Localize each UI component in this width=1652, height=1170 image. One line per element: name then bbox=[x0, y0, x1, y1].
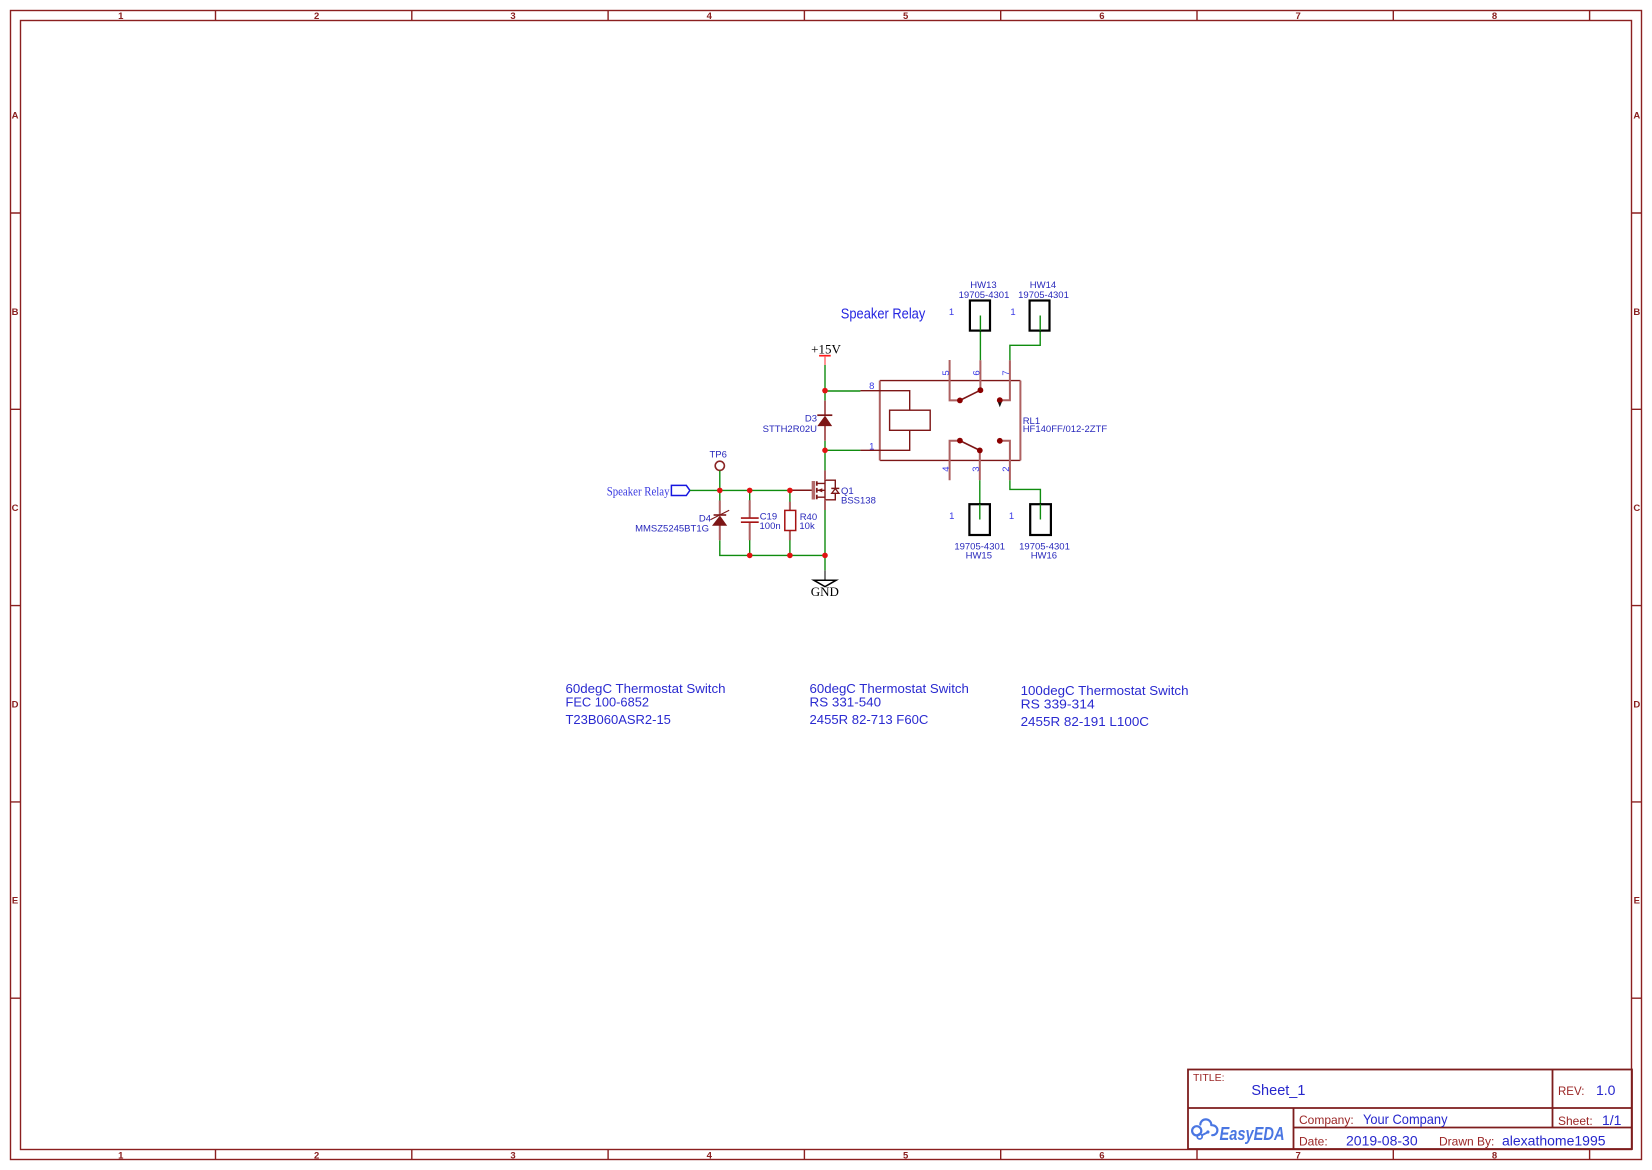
wire node to relay pin8 bbox=[825, 390, 860, 392]
diode D3 STTH2R02U bbox=[763, 390, 833, 450]
svg-text:19705-4301: 19705-4301 bbox=[1018, 290, 1069, 301]
wire source to gnd rail bbox=[824, 510, 826, 570]
svg-text:C: C bbox=[12, 503, 19, 514]
svg-text:1: 1 bbox=[949, 307, 954, 318]
svg-text:HF140FF/012-2ZTF: HF140FF/012-2ZTF bbox=[1023, 424, 1108, 435]
svg-text:BSS138: BSS138 bbox=[841, 495, 876, 506]
svg-text:4: 4 bbox=[707, 11, 713, 22]
svg-text:6: 6 bbox=[1099, 11, 1104, 22]
svg-text:HW16: HW16 bbox=[1031, 551, 1057, 562]
relay pin 6 bbox=[979, 360, 981, 390]
svg-text:60degC Thermostat Switch: 60degC Thermostat Switch bbox=[810, 682, 969, 696]
svg-text:FEC 100-6852: FEC 100-6852 bbox=[566, 696, 650, 710]
relay contact arrow bbox=[998, 402, 1002, 407]
svg-text:Sheet:: Sheet: bbox=[1558, 1114, 1593, 1128]
svg-text:1/1: 1/1 bbox=[1602, 1112, 1622, 1128]
svg-text:Speaker Relay: Speaker Relay bbox=[607, 485, 670, 499]
resistor R40 10k bbox=[785, 490, 817, 555]
svg-text:7: 7 bbox=[1001, 370, 1012, 375]
svg-text:RS 339-314: RS 339-314 bbox=[1021, 698, 1095, 712]
svg-text:4: 4 bbox=[707, 1150, 713, 1161]
svg-text:MMSZ5245BT1G: MMSZ5245BT1G bbox=[635, 524, 709, 535]
svg-text:2455R 82-713 F60C: 2455R 82-713 F60C bbox=[810, 713, 929, 727]
svg-text:2: 2 bbox=[314, 1150, 319, 1161]
test point TP6 bbox=[710, 449, 727, 470]
svg-text:60degC Thermostat Switch: 60degC Thermostat Switch bbox=[566, 682, 726, 696]
svg-text:A: A bbox=[12, 111, 19, 122]
ground flag GND bbox=[811, 570, 839, 599]
svg-text:RS 331-540: RS 331-540 bbox=[810, 696, 882, 710]
svg-text:A: A bbox=[1633, 111, 1640, 122]
note 100degC thermostat RS bbox=[1021, 684, 1189, 729]
note 60degC thermostat RS bbox=[810, 682, 969, 727]
svg-text:2455R 82-191 L100C: 2455R 82-191 L100C bbox=[1021, 715, 1149, 729]
junction node rail/source bbox=[822, 553, 828, 559]
relay pin 5 bbox=[950, 360, 960, 400]
svg-text:2019-08-30: 2019-08-30 bbox=[1346, 1133, 1418, 1149]
junction node rail/C19 bbox=[747, 553, 753, 559]
svg-text:7: 7 bbox=[1296, 1150, 1301, 1161]
svg-text:6: 6 bbox=[1099, 1150, 1104, 1161]
svg-text:7: 7 bbox=[1296, 11, 1301, 22]
svg-text:TP6: TP6 bbox=[710, 449, 727, 460]
svg-text:Drawn By:: Drawn By: bbox=[1439, 1135, 1494, 1149]
connector HW15 19705-4301 bbox=[949, 504, 1005, 561]
wire +15V down to node bbox=[824, 365, 826, 390]
relay pin 7 bbox=[1000, 360, 1010, 400]
svg-text:1: 1 bbox=[869, 441, 874, 452]
junction node gate/TP6 bbox=[717, 488, 723, 494]
wire bottom rail bbox=[720, 540, 825, 555]
svg-text:C: C bbox=[1633, 503, 1640, 514]
svg-text:3: 3 bbox=[510, 11, 515, 22]
svg-text:E: E bbox=[1634, 896, 1640, 907]
svg-text:2: 2 bbox=[314, 11, 319, 22]
connector HW16 19705-4301 bbox=[1009, 504, 1070, 561]
svg-text:E: E bbox=[12, 896, 18, 907]
svg-text:B: B bbox=[12, 307, 19, 318]
relay pin 4 bbox=[950, 441, 960, 480]
net flag Speaker Relay bbox=[607, 485, 690, 499]
junction node rail/R40 bbox=[787, 553, 793, 559]
svg-text:1.0: 1.0 bbox=[1596, 1082, 1616, 1098]
relay pin 3 bbox=[979, 450, 981, 480]
relay RL1 HF140FF/012-2ZTF bbox=[860, 360, 1107, 480]
power flag +15V bbox=[811, 342, 841, 365]
wire relay pin6 to HW13 bbox=[979, 316, 981, 361]
svg-text:8: 8 bbox=[1492, 11, 1497, 22]
relay pin 2 bbox=[1000, 441, 1010, 480]
svg-text:8: 8 bbox=[1492, 1150, 1497, 1161]
svg-text:Company:: Company: bbox=[1299, 1113, 1354, 1127]
svg-text:5: 5 bbox=[903, 11, 909, 22]
svg-text:EasyEDA: EasyEDA bbox=[1220, 1124, 1285, 1144]
svg-text:2: 2 bbox=[1001, 466, 1012, 471]
relay upper armature bbox=[960, 390, 981, 400]
svg-text:GND: GND bbox=[811, 584, 839, 599]
wire node to relay pin1 bbox=[825, 449, 860, 451]
wire TP6 to node bbox=[719, 471, 721, 501]
svg-text:D: D bbox=[1633, 699, 1640, 710]
svg-text:1: 1 bbox=[949, 511, 954, 522]
junction node drain/pin1 bbox=[822, 448, 828, 454]
connector HW14 19705-4301 bbox=[1010, 280, 1069, 330]
zener diode D4 MMSZ5245BT1G bbox=[635, 501, 729, 541]
svg-text:4: 4 bbox=[941, 466, 952, 471]
svg-text:D3: D3 bbox=[805, 414, 817, 425]
svg-text:1: 1 bbox=[1009, 511, 1014, 522]
svg-text:3: 3 bbox=[510, 1150, 515, 1161]
wire drain node vertical bbox=[824, 450, 826, 470]
svg-text:100n: 100n bbox=[760, 521, 781, 532]
svg-text:Sheet_1: Sheet_1 bbox=[1251, 1083, 1305, 1099]
svg-text:B: B bbox=[1633, 307, 1640, 318]
svg-text:1: 1 bbox=[118, 1150, 124, 1161]
svg-text:REV:: REV: bbox=[1558, 1086, 1584, 1098]
note 60degC thermostat FEC bbox=[566, 682, 726, 727]
svg-text:+15V: +15V bbox=[811, 342, 841, 357]
svg-text:alexathome1995: alexathome1995 bbox=[1502, 1133, 1606, 1149]
svg-text:8: 8 bbox=[869, 381, 874, 392]
svg-text:HW15: HW15 bbox=[966, 551, 992, 562]
mosfet Q1 BSS138 bbox=[791, 470, 876, 510]
wire relay pin7 to HW14 bbox=[1010, 316, 1040, 361]
svg-text:3: 3 bbox=[971, 466, 982, 471]
junction node +15V/pin8 bbox=[822, 388, 828, 394]
svg-text:Your Company: Your Company bbox=[1363, 1111, 1448, 1127]
svg-text:19705-4301: 19705-4301 bbox=[959, 290, 1010, 301]
svg-text:5: 5 bbox=[903, 1150, 909, 1161]
wire relay pin3 to HW15 bbox=[979, 480, 981, 519]
svg-text:D: D bbox=[12, 699, 19, 710]
svg-text:1: 1 bbox=[1010, 307, 1015, 318]
svg-text:10k: 10k bbox=[799, 521, 815, 532]
svg-text:STTH2R02U: STTH2R02U bbox=[763, 424, 818, 435]
svg-text:1: 1 bbox=[118, 11, 124, 22]
svg-text:TITLE:: TITLE: bbox=[1193, 1072, 1225, 1084]
svg-text:Speaker Relay: Speaker Relay bbox=[841, 306, 926, 322]
relay lower armature bbox=[960, 441, 980, 451]
svg-text:100degC Thermostat Switch: 100degC Thermostat Switch bbox=[1021, 684, 1189, 698]
title text Speaker Relay bbox=[841, 306, 926, 322]
svg-text:T23B060ASR2-15: T23B060ASR2-15 bbox=[566, 713, 671, 727]
svg-text:6: 6 bbox=[972, 370, 983, 375]
junction node gate/C19 bbox=[747, 488, 753, 494]
svg-text:Date:: Date: bbox=[1299, 1135, 1328, 1149]
connector HW13 19705-4301 bbox=[949, 280, 1010, 330]
svg-text:5: 5 bbox=[941, 370, 952, 375]
junction node gate/R40 bbox=[787, 488, 793, 494]
capacitor C19 100n bbox=[741, 490, 781, 555]
wire gate horizontal bbox=[690, 489, 791, 491]
wire relay pin2 to HW16 bbox=[1010, 480, 1041, 519]
